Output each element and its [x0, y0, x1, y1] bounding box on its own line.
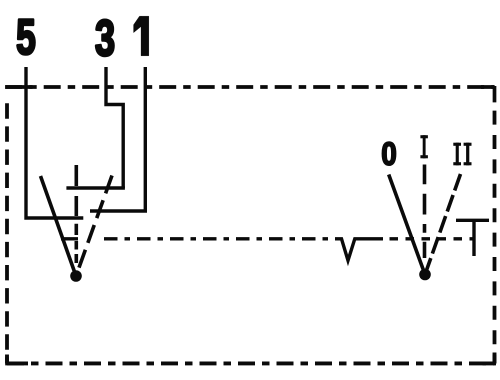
- enclosure frame right (dashed): [493, 111, 497, 364]
- frame corner bottom-left: [5, 355, 28, 364]
- terminal 3 contact bar: [66, 186, 125, 189]
- left switch middle dashed arm: [75, 165, 79, 263]
- left switch solid arm (position shown): [41, 176, 77, 276]
- label position 0: [382, 142, 395, 165]
- enclosure frame left (dashed): [5, 103, 9, 363]
- label terminal 3: [96, 20, 114, 56]
- terminal 3 lead wire with jog: [106, 67, 123, 188]
- label terminal 5: [17, 20, 35, 55]
- right switch dashed arm (position II): [425, 174, 461, 275]
- terminal 1 lead wire: [144, 67, 147, 211]
- right switch pivot dot: [419, 269, 431, 281]
- frame corner bottom-right: [483, 353, 497, 364]
- frame corner top-right: [481, 86, 495, 102]
- mechanical link kink (zigzag): [336, 239, 383, 261]
- terminal 5 lead wire (down then right): [26, 67, 83, 218]
- frame corner top-left: [5, 85, 32, 89]
- mechanical link solid stub at left switch: [61, 237, 78, 240]
- right switch middle dashed arm (position I): [423, 165, 427, 259]
- enclosure frame bottom (dash-dot): [7, 361, 495, 365]
- enclosure frame top (dash-dot): [5, 85, 494, 89]
- output contact T: [456, 219, 489, 222]
- terminal 1 contact bar: [90, 209, 147, 212]
- left switch pivot dot: [70, 270, 82, 282]
- label terminal 1: [134, 16, 149, 56]
- label position II (drawn serif II): [453, 143, 471, 166]
- label position I (drawn serif I): [420, 135, 428, 158]
- mechanical link dash-dot line left section: [104, 237, 336, 240]
- left switch right dashed arm: [76, 176, 112, 277]
- right switch solid arm (position 0): [389, 175, 425, 275]
- mechanical link dashed line right section: [390, 237, 475, 240]
